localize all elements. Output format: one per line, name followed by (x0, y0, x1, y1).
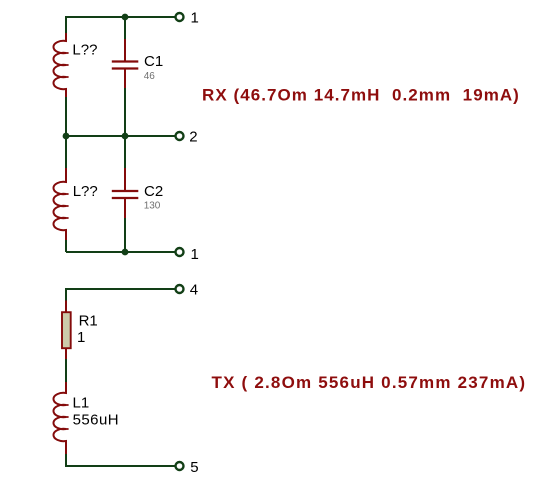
junction dot middle rail left (63, 133, 70, 140)
capacitor C1 (112, 39, 139, 88)
svg-text:2: 2 (189, 128, 197, 145)
wire: RX left rail (middle rail to L?? lower) (65, 136, 67, 168)
junction dot middle rail center (122, 133, 129, 140)
wire: C1 bottom lead wire (124, 88, 126, 136)
svg-text:1: 1 (77, 329, 85, 346)
inductor L1 (53, 382, 68, 454)
wire: middle rail (66, 135, 175, 137)
junction dot top rail (122, 14, 129, 21)
wire: TX rail (R1 to L1) (65, 359, 67, 382)
junction dot bottom rail (122, 249, 129, 256)
svg-text:C1: C1 (144, 53, 163, 70)
svg-text:C2: C2 (144, 183, 163, 200)
svg-text:556uH: 556uH (73, 412, 119, 429)
wire: TX rail (top corner to R1) (65, 288, 67, 301)
wire: C2 bottom lead wire (124, 218, 126, 252)
svg-text:TX ( 2.8Om 556uH 0.57mm 237mA): TX ( 2.8Om 556uH 0.57mm 237mA) (212, 373, 527, 392)
capacitor C2 (112, 168, 139, 218)
svg-text:46: 46 (144, 71, 156, 82)
wire: C1 top lead wire (124, 17, 126, 39)
terminal 5 (176, 462, 184, 470)
wire: TX bottom rail (66, 465, 175, 467)
inductor L?? (upper) (53, 33, 68, 97)
wire: RX left rail (L?? lower to bottom rail) (65, 240, 67, 252)
wire: RX left rail lower (L?? bottom to middle rail) (65, 97, 67, 136)
terminal 4 (176, 285, 184, 293)
wire: C2 top lead wire (124, 136, 126, 168)
svg-text:RX (46.7Om 14.7mH 0.2mm 19mA: RX (46.7Om 14.7mH 0.2mm 19mA) (202, 85, 520, 104)
wire: TX rail (L1 to bottom rail) (65, 454, 67, 467)
wire: RX top rail (66, 16, 175, 18)
terminal 1 (top) (176, 13, 184, 21)
terminal 2 (176, 132, 184, 140)
svg-text:5: 5 (190, 459, 198, 476)
svg-text:L1: L1 (73, 394, 90, 411)
wire: RX left rail upper (to L?? top pin) (65, 16, 67, 33)
svg-text:4: 4 (190, 281, 198, 298)
svg-text:1: 1 (191, 10, 199, 27)
svg-text:R1: R1 (79, 313, 98, 330)
terminal 1 (bottom) (176, 248, 184, 256)
svg-text:L??: L?? (73, 183, 98, 200)
wire: TX top rail (66, 288, 175, 290)
svg-text:L??: L?? (72, 41, 97, 58)
inductor L?? (lower) (53, 168, 68, 240)
svg-text:130: 130 (144, 201, 161, 212)
svg-text:1: 1 (191, 246, 199, 263)
resistor R1 (62, 301, 71, 360)
wire: RX bottom rail (66, 251, 175, 253)
